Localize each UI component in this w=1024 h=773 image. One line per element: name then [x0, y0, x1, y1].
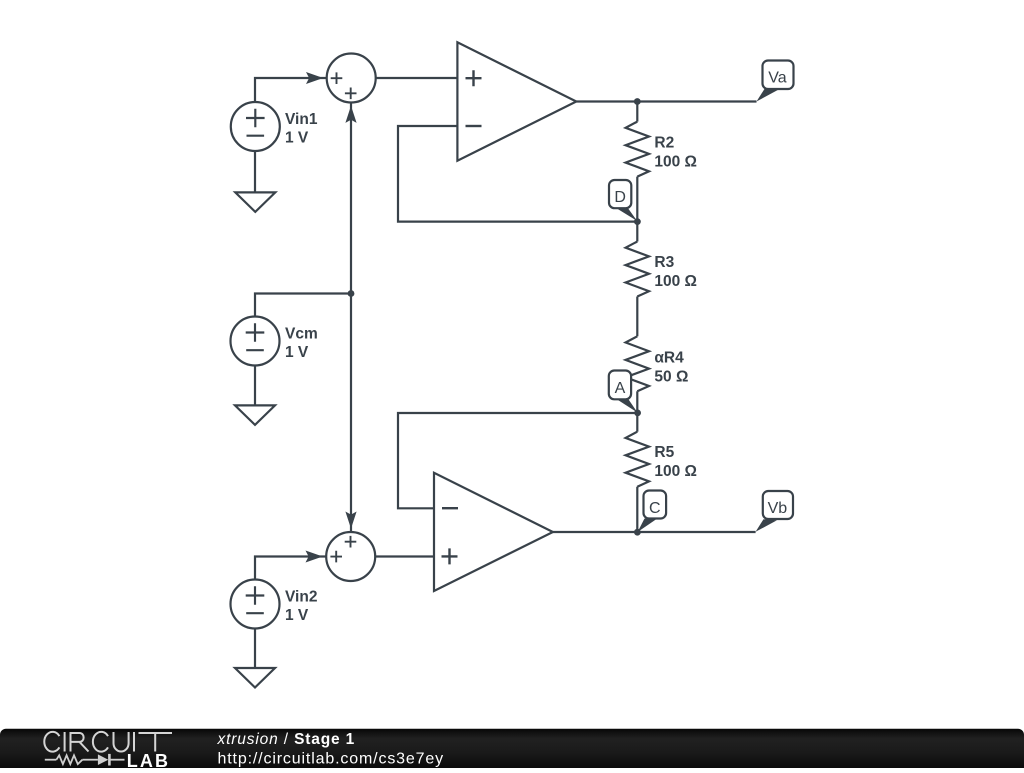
svg-text:100 Ω: 100 Ω: [654, 463, 697, 480]
svg-text:D: D: [614, 189, 626, 206]
ground under Vcm: [235, 405, 275, 425]
wire Vin2 top lead to summer 2: [255, 557, 326, 580]
wire arrow down into summer 2 top: [345, 512, 356, 529]
flag node D: [617, 208, 638, 221]
wire arrow into summer 1 left: [306, 72, 323, 84]
flag node A: [617, 399, 638, 412]
wire Vin1 top lead to summer: [255, 78, 327, 151]
flag node C: [638, 519, 657, 533]
svg-text:Vb: Vb: [768, 500, 788, 517]
wire node A feedback to op-amp U2 inverting input: [398, 413, 637, 508]
wire summer 2 to op-amp U2 + input: [375, 555, 434, 557]
flag Vb: [756, 519, 777, 532]
CircuitLab logo wordmark CIRCUIT: [44, 732, 172, 752]
node junction at U1 output: [634, 98, 641, 105]
voltage source Vin1: [231, 102, 280, 151]
node A junction: [634, 410, 641, 417]
ground under Vin1: [235, 192, 275, 212]
voltage source Vin2: [231, 580, 280, 629]
wire U2 output to Vb: [553, 531, 756, 533]
node junction on bus at Vcm: [348, 290, 355, 297]
svg-text:αR4: αR4: [654, 349, 684, 366]
svg-text:Vin2: Vin2: [285, 589, 317, 606]
svg-text:Vcm: Vcm: [285, 326, 318, 343]
resistor R2: [636, 102, 638, 122]
wire arrow into summer 2 left: [306, 551, 323, 563]
svg-text:50 Ω: 50 Ω: [654, 368, 688, 385]
svg-text:R5: R5: [654, 444, 674, 461]
svg-text:R3: R3: [654, 254, 674, 271]
wire Vin2 bottom lead: [254, 629, 256, 669]
resistor R3: [636, 222, 638, 242]
wire Vin1 bottom lead: [254, 151, 256, 192]
wire U1 output to Va: [576, 100, 756, 102]
svg-text:100 Ω: 100 Ω: [654, 273, 697, 290]
wire arrow up into summer 1 bottom: [345, 106, 356, 123]
svg-text:Vin1: Vin1: [285, 111, 318, 128]
svg-text:xtrusion / Stage 1: xtrusion / Stage 1: [217, 731, 356, 748]
flag Va: [757, 89, 779, 102]
voltage source Vcm: [231, 317, 280, 366]
wire common-mode vertical bus: [350, 103, 352, 532]
summing junction 2: [326, 532, 375, 581]
svg-text:1 V: 1 V: [285, 130, 309, 147]
wire U1 feedback: inverting input to node D: [398, 126, 637, 222]
svg-text:100 Ω: 100 Ω: [654, 153, 697, 170]
svg-text:1 V: 1 V: [285, 607, 309, 624]
resistor aR4: [626, 336, 649, 391]
resistor R5: [636, 413, 638, 432]
wire summer 1 to op-amp U1 + input: [376, 77, 458, 79]
svg-text:C: C: [649, 500, 661, 517]
op-amp U1: [457, 42, 576, 160]
svg-text:R2: R2: [654, 134, 674, 151]
wire Vcm bottom lead: [254, 366, 256, 406]
node D junction: [634, 218, 641, 225]
svg-text:http://circuitlab.com/cs3e7ey: http://circuitlab.com/cs3e7ey: [218, 751, 445, 768]
svg-text:A: A: [615, 380, 626, 397]
svg-text:LAB: LAB: [127, 751, 170, 768]
footer bar: [0, 729, 1024, 771]
wire Vcm to bus: [255, 294, 351, 317]
svg-text:Va: Va: [768, 70, 786, 87]
CircuitLab logo resistor-diode art: [45, 754, 125, 766]
ground under Vin2: [235, 668, 275, 688]
summing junction 1: [327, 54, 376, 103]
svg-text:1 V: 1 V: [285, 344, 309, 361]
node C junction: [634, 529, 641, 536]
op-amp U2: [434, 473, 553, 591]
